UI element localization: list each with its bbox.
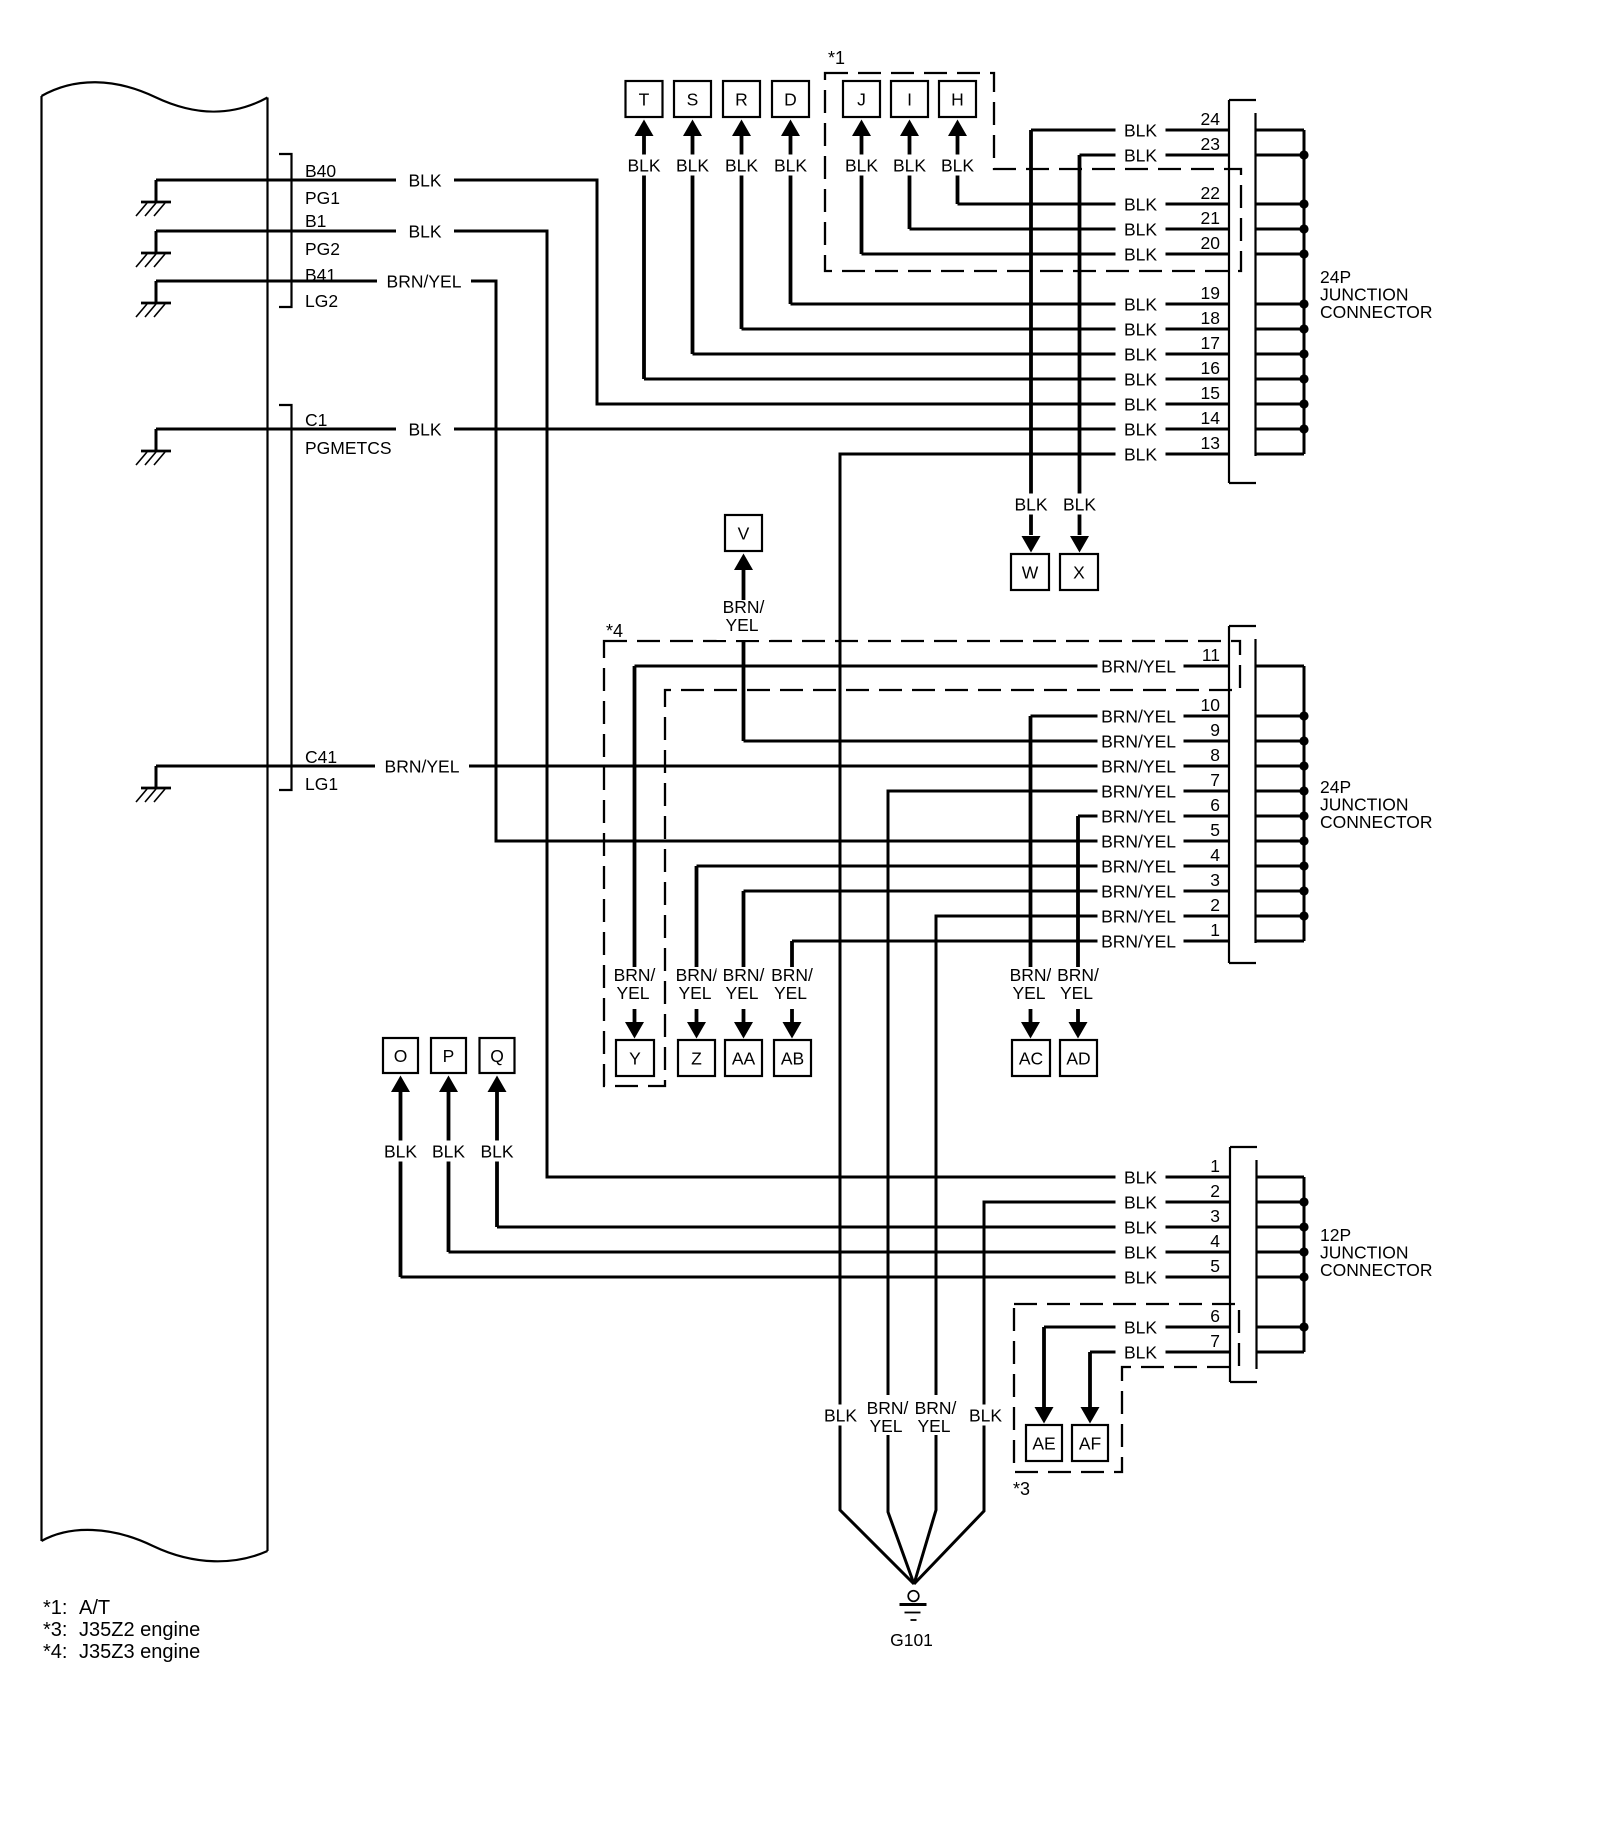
- terminal box J: [843, 81, 880, 117]
- svg-text:C41: C41: [305, 747, 337, 767]
- legend note *4: J35Z3 engine: [43, 1641, 200, 1663]
- terminal box X: [1060, 554, 1098, 590]
- svg-text:19: 19: [1201, 283, 1220, 303]
- value label BLK (12P pin 4 wire): [1116, 1242, 1166, 1263]
- wire stem down to terminal AB: [790, 941, 794, 1022]
- svg-text:BLK: BLK: [1124, 1317, 1157, 1337]
- value label BLK (upper 24P pin 16 wire): [1116, 369, 1166, 390]
- arrowhead into terminal O: [391, 1076, 410, 1093]
- value label BRN/YEL (G101 wire 3, two lines): [909, 1395, 963, 1436]
- wire 24P (upper) pin 21 to terminal I: [910, 228, 1230, 231]
- svg-text:BLK: BLK: [1124, 1267, 1157, 1287]
- svg-text:BLK: BLK: [384, 1141, 417, 1161]
- 24P junction connector (middle) pin 3 stub to bus: [1256, 890, 1305, 893]
- svg-text:YEL: YEL: [917, 1416, 950, 1436]
- svg-text:BRN/YEL: BRN/YEL: [1101, 831, 1176, 851]
- 24P junction connector (upper) pin 15 stub to bus: [1256, 403, 1305, 406]
- 24P junction connector (middle) pin 7 stub to bus: [1256, 790, 1305, 793]
- dashed option box *4 (J35Z3 engine) enclosing Y and pin 11: [604, 641, 1240, 1086]
- ground drop wire 5 (PCM internal): [155, 766, 158, 788]
- svg-text:*1:: *1:: [43, 1597, 67, 1619]
- svg-text:BRN/YEL: BRN/YEL: [385, 756, 460, 776]
- arrowhead into terminal Y: [625, 1022, 644, 1039]
- svg-text:J: J: [857, 89, 866, 109]
- svg-text:*4:: *4:: [43, 1641, 67, 1663]
- svg-text:*3: *3: [1013, 1479, 1030, 1499]
- 24P junction connector (upper) pin 17 stub to bus: [1256, 353, 1305, 356]
- value label BRN/YEL (middle 24P pin 5 wire): [1098, 831, 1184, 852]
- PCM/ECM component box (torn edges): [42, 82, 268, 1561]
- svg-text:BLK: BLK: [1124, 369, 1157, 389]
- 12P junction connector pin 2 stub to bus: [1257, 1201, 1305, 1204]
- svg-text:YEL: YEL: [1012, 983, 1045, 1003]
- svg-text:BLK: BLK: [1124, 1217, 1157, 1237]
- svg-text:24: 24: [1201, 109, 1221, 129]
- svg-text:AA: AA: [732, 1048, 756, 1068]
- 24P junction connector (upper) bus junction dot at y=254: [1299, 249, 1308, 258]
- svg-text:B1: B1: [305, 211, 326, 231]
- svg-text:AB: AB: [781, 1048, 804, 1068]
- svg-text:J35Z3 engine: J35Z3 engine: [79, 1641, 200, 1663]
- 12P junction connector bus wire: [1303, 1177, 1306, 1352]
- wire B40/PG1 BLK to 24P junction connector (upper) pin 15: [156, 180, 1229, 404]
- svg-text:BLK: BLK: [1124, 394, 1157, 414]
- value label BRN/YEL (G101 wire 2, two lines): [861, 1395, 915, 1436]
- terminal box AD: [1060, 1040, 1097, 1076]
- svg-text:BRN/: BRN/: [1057, 965, 1099, 985]
- wire stem up to terminal H: [956, 135, 960, 204]
- svg-text:13: 13: [1201, 433, 1220, 453]
- value label BLK (B1/PG2 wire): [396, 221, 454, 242]
- svg-text:X: X: [1073, 562, 1085, 582]
- wire 24P (middle) pin 6 to terminal AD: [1078, 815, 1229, 818]
- 24P junction connector (upper) bus wire: [1303, 130, 1306, 454]
- svg-text:BLK: BLK: [1124, 1242, 1157, 1262]
- wire 12P pin 7 to terminal AF: [1090, 1351, 1229, 1354]
- terminal box O: [383, 1038, 418, 1073]
- ground symbol 3 (PCM internal chassis ground): [136, 303, 171, 317]
- svg-text:PG2: PG2: [305, 239, 340, 259]
- arrowhead into terminal P: [439, 1076, 458, 1093]
- svg-text:BRN/YEL: BRN/YEL: [1101, 756, 1176, 776]
- 12P junction connector bus junction dot at y=1202: [1299, 1197, 1308, 1206]
- svg-text:BRN/: BRN/: [614, 965, 656, 985]
- value label BRN/YEL (middle 24P pin 3 wire): [1098, 881, 1184, 902]
- 24P junction connector (upper) pin 13 stub to bus: [1256, 453, 1305, 456]
- wire 24P (middle) pin 2 BRN/YEL trunk down to ground G101: [914, 916, 1229, 1584]
- svg-text:BLK: BLK: [1124, 1342, 1157, 1362]
- value label BLK (G101 wire 4): [963, 1405, 1009, 1426]
- 24P junction connector (middle) pin 1 stub to bus: [1256, 940, 1305, 943]
- terminal box H: [939, 81, 976, 117]
- 24P junction connector (upper) pin 18 stub to bus: [1256, 328, 1305, 331]
- wire 24P (middle) pin 9 to terminal V: [744, 740, 1230, 743]
- svg-text:A/T: A/T: [79, 1597, 110, 1619]
- svg-text:BRN/YEL: BRN/YEL: [1101, 781, 1176, 801]
- svg-text:BLK: BLK: [1124, 344, 1157, 364]
- svg-text:BRN/: BRN/: [867, 1398, 909, 1418]
- svg-text:BRN/: BRN/: [723, 965, 765, 985]
- terminal box D: [772, 81, 809, 117]
- arrowhead into terminal AE: [1035, 1407, 1054, 1424]
- svg-text:18: 18: [1201, 308, 1220, 328]
- 24P junction connector (upper) bus junction dot at y=354: [1299, 349, 1308, 358]
- terminal box W: [1011, 554, 1049, 590]
- arrowhead into terminal D: [781, 120, 800, 137]
- svg-text:BRN/: BRN/: [1010, 965, 1052, 985]
- svg-text:Z: Z: [691, 1048, 702, 1068]
- svg-text:6: 6: [1210, 795, 1220, 815]
- terminal box AA: [725, 1040, 762, 1076]
- 24P junction connector (middle) bus junction dot at y=791: [1299, 786, 1308, 795]
- value label BLK (R wire): [719, 155, 765, 176]
- wire 24P (upper) pin 19 to terminal D: [791, 303, 1230, 306]
- svg-text:LG1: LG1: [305, 774, 338, 794]
- arrowhead into terminal Q: [488, 1076, 507, 1093]
- terminal box V: [725, 515, 762, 551]
- svg-text:BLK: BLK: [1124, 444, 1157, 464]
- 12P junction connector pin 7 stub to bus: [1257, 1351, 1305, 1354]
- 24P junction connector (upper) bus junction dot at y=429: [1299, 424, 1308, 433]
- 24P junction connector (upper) bus junction dot at y=304: [1299, 299, 1308, 308]
- wire stem down to terminal Y: [633, 666, 637, 1022]
- 24P junction connector (middle) bus junction dot at y=766: [1299, 761, 1308, 770]
- svg-text:BRN/: BRN/: [676, 965, 718, 985]
- ground drop wire 3 (PCM internal): [155, 281, 158, 303]
- wire 24P (middle) pin 7 BRN/YEL trunk down to ground G101: [888, 791, 1229, 1584]
- 12P junction connector bus junction dot at y=1277: [1299, 1272, 1308, 1281]
- svg-text:BRN/YEL: BRN/YEL: [1101, 806, 1176, 826]
- terminal box T: [626, 81, 663, 117]
- wire stem up to terminal I: [908, 135, 912, 229]
- terminal box S: [674, 81, 711, 117]
- arrowhead into terminal AA: [734, 1022, 753, 1039]
- 24P junction connector (upper) pin 20 stub to bus: [1256, 253, 1305, 256]
- 12P junction connector body: [1230, 1147, 1257, 1382]
- svg-text:15: 15: [1201, 383, 1220, 403]
- svg-text:AE: AE: [1032, 1433, 1055, 1453]
- wire stem up to terminal D: [789, 135, 793, 304]
- value label BRN/YEL (middle 24P pin 10 wire): [1098, 706, 1184, 727]
- terminal box P: [431, 1038, 466, 1073]
- terminal box R: [723, 81, 760, 117]
- arrowhead into terminal V: [734, 554, 753, 571]
- wire 12P pin 2 BLK trunk down to ground G101: [914, 1202, 1229, 1584]
- 24P junction connector (middle) pin 4 stub to bus: [1256, 865, 1305, 868]
- svg-text:7: 7: [1210, 1331, 1220, 1351]
- svg-text:AD: AD: [1066, 1048, 1090, 1068]
- arrowhead into terminal H: [948, 120, 967, 137]
- 24P junction connector (middle) body: [1229, 626, 1256, 963]
- value label BLK (12P pin 2 wire): [1116, 1192, 1166, 1213]
- 12P junction connector pin 6 stub to bus: [1257, 1326, 1305, 1329]
- arrowhead into terminal I: [900, 120, 919, 137]
- svg-text:LG2: LG2: [305, 291, 338, 311]
- wire stem down to terminal Z: [695, 866, 699, 1022]
- svg-text:P: P: [443, 1046, 455, 1066]
- value label BRN/YEL (middle 24P pin 4 wire): [1098, 856, 1184, 877]
- wire terminal Q to 12P junction connector pin: [497, 1226, 1229, 1229]
- value label BLK (J wire): [839, 155, 885, 176]
- svg-text:*1: *1: [828, 48, 845, 68]
- ground G101 symbol: [900, 1591, 927, 1620]
- wire stem down to terminal AA: [742, 891, 746, 1022]
- ground symbol 5 (PCM internal chassis ground): [136, 788, 171, 802]
- value label BRN/YEL (middle 24P pin 8 wire): [1098, 756, 1184, 777]
- 12P junction connector bus junction dot at y=1227: [1299, 1222, 1308, 1231]
- 24P junction connector (upper) bus junction dot at y=329: [1299, 324, 1308, 333]
- wire stem down to terminal AD: [1076, 816, 1080, 1022]
- svg-text:*3:: *3:: [43, 1619, 67, 1641]
- wire 24P (middle) pin 11 to terminal Y: [635, 665, 1230, 668]
- svg-text:BRN/YEL: BRN/YEL: [1101, 931, 1176, 951]
- 24P junction connector (middle) pin 10 stub to bus: [1256, 715, 1305, 718]
- wire terminal P to 12P junction connector pin: [449, 1251, 1230, 1254]
- 24P junction connector (middle) pin 6 stub to bus: [1256, 815, 1305, 818]
- svg-text:3: 3: [1210, 1206, 1220, 1226]
- svg-text:BRN/YEL: BRN/YEL: [1101, 706, 1176, 726]
- svg-text:BLK: BLK: [969, 1405, 1002, 1425]
- svg-text:BLK: BLK: [408, 170, 441, 190]
- 24P junction connector (middle) bus junction dot at y=816: [1299, 811, 1308, 820]
- svg-text:BLK: BLK: [627, 155, 660, 175]
- dashed option box *3 (J35Z2 engine) enclosing AE AF and pins 6-7: [1014, 1304, 1239, 1472]
- arrowhead into terminal S: [683, 120, 702, 137]
- svg-text:BLK: BLK: [432, 1141, 465, 1161]
- value label BRN/YEL (middle 24P pin 6 wire): [1098, 806, 1184, 827]
- wire 24P (middle) pin 4 to terminal Z: [697, 865, 1230, 868]
- wire 24P (middle) pin 10 to terminal AC: [1031, 715, 1230, 718]
- 24P junction connector (upper) body: [1229, 100, 1256, 483]
- 24P junction connector (middle) label: [1320, 777, 1432, 832]
- 24P junction connector (upper) bus junction dot at y=155: [1299, 150, 1308, 159]
- svg-text:B40: B40: [305, 161, 336, 181]
- value label BRN/YEL (middle 24P pin 1 wire): [1098, 931, 1184, 952]
- value label BLK (upper 24P pin 23 wire): [1116, 145, 1166, 166]
- 24P junction connector (middle) bus junction dot at y=716: [1299, 711, 1308, 720]
- 24P junction connector (middle) pin 8 stub to bus: [1256, 765, 1305, 768]
- svg-text:C1: C1: [305, 410, 327, 430]
- wire 24P (upper) pin 16 to terminal T: [644, 378, 1229, 381]
- svg-text:H: H: [951, 89, 964, 109]
- svg-text:BLK: BLK: [1124, 419, 1157, 439]
- value label BRN/YEL (AB wire, two lines): [765, 965, 819, 1009]
- svg-text:BRN/YEL: BRN/YEL: [1101, 906, 1176, 926]
- svg-text:17: 17: [1201, 333, 1220, 353]
- svg-text:22: 22: [1201, 183, 1220, 203]
- svg-text:21: 21: [1201, 208, 1220, 228]
- svg-text:YEL: YEL: [774, 983, 807, 1003]
- svg-text:BLK: BLK: [1124, 145, 1157, 165]
- svg-text:PG1: PG1: [305, 188, 340, 208]
- value label BLK (B40/PG1 wire): [396, 170, 454, 191]
- wire 24P (middle) pin 1 to terminal AB: [792, 940, 1229, 943]
- value label BLK (12P pin 6 wire): [1116, 1317, 1166, 1338]
- svg-text:BRN/: BRN/: [915, 1398, 957, 1418]
- svg-text:I: I: [907, 89, 912, 109]
- ground symbol 4 (PCM internal chassis ground): [136, 451, 171, 465]
- value label BLK (12P pin 7 wire): [1116, 1342, 1166, 1363]
- terminal box Z: [678, 1040, 715, 1076]
- svg-text:T: T: [639, 89, 650, 109]
- svg-text:BLK: BLK: [1124, 1192, 1157, 1212]
- value label BRN/YEL (middle 24P pin 11 wire): [1098, 656, 1184, 677]
- wire 24P (upper) pin 13 BLK trunk down to ground G101: [840, 454, 1229, 1584]
- svg-text:BLK: BLK: [824, 1405, 857, 1425]
- svg-text:BLK: BLK: [408, 221, 441, 241]
- svg-text:BRN/YEL: BRN/YEL: [1101, 731, 1176, 751]
- 24P junction connector (upper) bus junction dot at y=204: [1299, 199, 1308, 208]
- wire 24P (upper) pin 24 to terminal W: [1031, 129, 1229, 132]
- svg-text:YEL: YEL: [869, 1416, 902, 1436]
- svg-text:20: 20: [1201, 233, 1221, 253]
- wire 12P pin 6 to terminal AE: [1044, 1326, 1229, 1329]
- value label BLK (P wire): [426, 1141, 472, 1162]
- value label BRN/YEL (B41/LG2 wire): [377, 271, 471, 292]
- value label BRN/YEL (middle 24P pin 2 wire): [1098, 906, 1184, 927]
- 24P junction connector (middle) bus junction dot at y=841: [1299, 836, 1308, 845]
- 24P junction connector (upper) bus junction dot at y=229: [1299, 224, 1308, 233]
- 12P junction connector pin 4 stub to bus: [1257, 1251, 1305, 1254]
- 24P junction connector (middle) pin 5 stub to bus: [1256, 840, 1305, 843]
- value label BLK (X wire): [1058, 494, 1102, 515]
- svg-text:3: 3: [1210, 870, 1220, 890]
- svg-text:2: 2: [1210, 895, 1220, 915]
- 24P junction connector (middle) bus junction dot at y=916: [1299, 911, 1308, 920]
- svg-text:11: 11: [1202, 645, 1220, 665]
- value label BLK (12P pin 1 wire): [1116, 1167, 1166, 1188]
- ground symbol 2 (PCM internal chassis ground): [136, 253, 171, 267]
- legend note *3: J35Z2 engine: [43, 1619, 200, 1641]
- arrowhead into terminal AC: [1021, 1022, 1040, 1039]
- value label BRN/YEL (Z wire, two lines): [670, 965, 724, 1009]
- value label BLK (D wire): [768, 155, 814, 176]
- value label BLK (S wire): [670, 155, 716, 176]
- wire terminal O to 12P junction connector pin: [401, 1276, 1230, 1279]
- svg-text:YEL: YEL: [725, 615, 758, 635]
- svg-text:AF: AF: [1079, 1433, 1101, 1453]
- svg-text:5: 5: [1210, 820, 1220, 840]
- value label BLK (upper 24P pin 17 wire): [1116, 344, 1166, 365]
- svg-text:BLK: BLK: [1124, 120, 1157, 140]
- svg-text:9: 9: [1210, 720, 1220, 740]
- value label BLK (upper 24P pin 20 wire): [1116, 244, 1166, 265]
- wire B41/LG2 BRN/YEL to 24P junction connector (middle) pin 5: [156, 281, 1229, 841]
- svg-text:V: V: [738, 523, 750, 543]
- svg-text:G101: G101: [890, 1630, 933, 1650]
- 24P junction connector (middle) bus junction dot at y=891: [1299, 886, 1308, 895]
- wire 24P (upper) pin 17 to terminal S: [693, 353, 1230, 356]
- svg-text:BLK: BLK: [774, 155, 807, 175]
- svg-text:BRN/: BRN/: [723, 597, 765, 617]
- arrowhead into terminal AF: [1081, 1407, 1100, 1424]
- svg-text:10: 10: [1201, 695, 1221, 715]
- 12P junction connector pin 3 stub to bus: [1257, 1226, 1305, 1229]
- svg-text:BLK: BLK: [893, 155, 926, 175]
- wire stem up to terminal R: [740, 135, 744, 329]
- svg-text:BLK: BLK: [1124, 219, 1157, 239]
- svg-text:6: 6: [1210, 1306, 1220, 1326]
- 24P junction connector (upper) pin 19 stub to bus: [1256, 303, 1305, 306]
- 24P junction connector (middle) pin 9 stub to bus: [1256, 740, 1305, 743]
- svg-text:BLK: BLK: [676, 155, 709, 175]
- terminal box AB: [774, 1040, 811, 1076]
- wire C41/LG1 BRN/YEL to 24P junction connector (middle) pin 8: [156, 765, 1229, 768]
- svg-text:YEL: YEL: [1060, 983, 1093, 1003]
- ground drop wire 2 (PCM internal): [155, 231, 158, 253]
- 12P junction connector bus junction dot at y=1252: [1299, 1247, 1308, 1256]
- svg-text:BLK: BLK: [845, 155, 878, 175]
- svg-text:W: W: [1022, 562, 1039, 582]
- wire 24P (upper) pin 18 to terminal R: [742, 328, 1230, 331]
- svg-text:BRN/YEL: BRN/YEL: [1101, 881, 1176, 901]
- arrowhead into terminal W: [1022, 536, 1041, 553]
- value label BLK (C1/PGMETCS wire): [396, 419, 454, 440]
- 24P junction connector (middle) bus wire: [1303, 666, 1306, 941]
- wire stem up to terminal Q: [495, 1092, 499, 1227]
- wire stem down to terminal AF: [1088, 1352, 1092, 1408]
- svg-text:YEL: YEL: [678, 983, 711, 1003]
- value label BLK (I wire): [887, 155, 933, 176]
- value label BLK (upper 24P pin 14 wire): [1116, 419, 1166, 440]
- svg-text:BLK: BLK: [408, 419, 441, 439]
- arrowhead into terminal AD: [1069, 1022, 1088, 1039]
- svg-text:4: 4: [1210, 845, 1220, 865]
- svg-text:5: 5: [1210, 1256, 1220, 1276]
- wire B1/PG2 BLK to 12P junction connector pin 1: [156, 231, 1229, 1177]
- svg-text:R: R: [735, 89, 748, 109]
- 24P junction connector (middle) pin 2 stub to bus: [1256, 915, 1305, 918]
- 24P junction connector (upper) bus junction dot at y=379: [1299, 374, 1308, 383]
- svg-text:BLK: BLK: [480, 1141, 513, 1161]
- wire stem up to terminal S: [691, 135, 695, 354]
- wire C1/PGMETCS BLK to 24P junction connector (upper) pin 14: [156, 428, 1229, 431]
- wire stem up to terminal O: [399, 1092, 403, 1277]
- arrowhead into terminal Z: [687, 1022, 706, 1039]
- value label BLK (upper 24P pin 13 wire): [1116, 444, 1166, 465]
- 12P junction connector label: [1320, 1225, 1432, 1280]
- value label BLK (upper 24P pin 24 wire): [1116, 120, 1166, 141]
- legend note *1: A/T: [43, 1597, 110, 1619]
- value label BLK (W wire): [1009, 494, 1053, 515]
- ground drop wire 1 (PCM internal): [155, 180, 158, 202]
- value label BLK (upper 24P pin 21 wire): [1116, 219, 1166, 240]
- value label BLK (T wire): [621, 155, 667, 176]
- value label BLK (upper 24P pin 19 wire): [1116, 294, 1166, 315]
- svg-text:S: S: [687, 89, 699, 109]
- 24P junction connector (upper) bus junction dot at y=404: [1299, 399, 1308, 408]
- arrowhead into terminal AB: [783, 1022, 802, 1039]
- svg-text:8: 8: [1210, 745, 1220, 765]
- value label BRN/YEL (V wire, two lines): [717, 597, 771, 640]
- value label BLK (12P pin 3 wire): [1116, 1217, 1166, 1238]
- value label BLK (H wire): [935, 155, 981, 176]
- arrowhead into terminal J: [852, 120, 871, 137]
- value label BRN/YEL (middle 24P pin 7 wire): [1098, 781, 1184, 802]
- svg-text:2: 2: [1210, 1181, 1220, 1201]
- svg-text:Y: Y: [629, 1048, 641, 1068]
- svg-text:BLK: BLK: [941, 155, 974, 175]
- value label BLK (upper 24P pin 15 wire): [1116, 394, 1166, 415]
- svg-text:PGMETCS: PGMETCS: [305, 438, 392, 458]
- 24P junction connector (middle) pin 11 stub to bus: [1256, 665, 1305, 668]
- terminal box AF: [1072, 1425, 1108, 1461]
- svg-text:BLK: BLK: [1014, 494, 1047, 514]
- svg-text:BLK: BLK: [1124, 244, 1157, 264]
- value label BLK (G101 wire 1): [818, 1405, 864, 1426]
- svg-text:7: 7: [1210, 770, 1220, 790]
- svg-text:AC: AC: [1019, 1048, 1043, 1068]
